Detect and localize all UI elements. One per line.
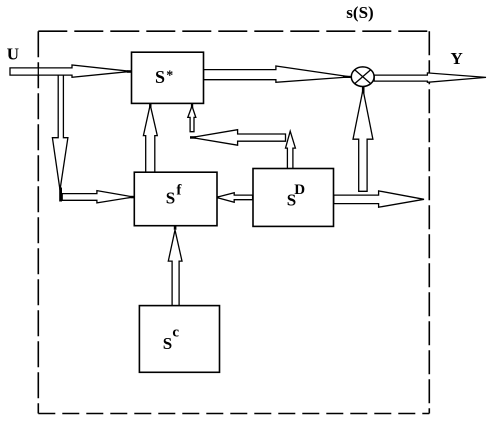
wire arrow A2 : branch from input U down along left side — [52, 72, 68, 190]
label Y : output — [451, 49, 463, 68]
label U : input — [7, 45, 19, 64]
svg-text:*: * — [166, 69, 173, 84]
summing junction (multiplier) circle with X — [351, 67, 374, 87]
wire arrow A4 : block Sf up into block S* — [143, 105, 157, 173]
svg-text:S: S — [166, 189, 175, 208]
wire arrow A9 : block SD output rightwards — [334, 191, 424, 207]
junction tick : feedback arrow tip — [190, 136, 196, 139]
system boundary dashed box : bottom edge — [38, 413, 429, 415]
system boundary dashed box : right edge — [428, 31, 430, 413]
block Sf — [134, 172, 217, 226]
junction tick : arrow tip at Sf right input — [214, 196, 218, 199]
block Sc — [139, 306, 219, 373]
wire arrow A5 : feedback riser into S* bottom right — [188, 106, 196, 132]
junction tick : U line crosses dashed boundary — [37, 66, 39, 78]
junction tick : corner of branch wire — [59, 188, 62, 202]
junction tick : arrow tip at S* bottom right input — [191, 103, 193, 108]
system boundary dashed box : left edge — [37, 31, 39, 413]
junction tick : arrow tip at Sf input — [131, 196, 135, 199]
junction tick : arrow tip at Sf bottom input — [174, 223, 177, 230]
junction tick : at summing junction left input — [343, 76, 351, 78]
wire arrow A7 : block SD up to feedback wire — [286, 131, 296, 169]
wire arrow A6 : feedback wire leftwards toward S* riser — [192, 130, 286, 146]
wire arrow A8 : block SD into block Sf — [216, 193, 252, 203]
junction tick : arrow tip at S* bottom left input — [149, 103, 151, 108]
wire arrow A1 : input U into block S* — [10, 65, 131, 77]
svg-text:D: D — [294, 182, 305, 198]
block S* — [132, 52, 204, 103]
svg-text:S: S — [155, 67, 165, 87]
label s(S) : system boundary — [346, 3, 373, 22]
wire arrow A10 : riser up into summing junction — [353, 90, 373, 192]
svg-text:s(S): s(S) — [346, 3, 373, 22]
block SD — [253, 169, 334, 227]
svg-text:S: S — [163, 334, 172, 353]
junction tick : arrow tip at S* input — [127, 70, 132, 73]
svg-text:c: c — [172, 325, 179, 341]
junction tick : below summing junction — [362, 86, 365, 93]
wire arrow A11 : block S* output into summing junction — [204, 66, 351, 82]
wire arrow A12 : summing junction output Y — [374, 73, 486, 82]
svg-text:U: U — [7, 45, 19, 64]
wire arrow A13 : block Sc up into block Sf — [168, 230, 182, 306]
wire arrow A3 : branch wire into block Sf — [62, 191, 133, 203]
svg-text:Y: Y — [451, 49, 463, 68]
system boundary s(S) dashed box : top edge — [38, 30, 429, 32]
